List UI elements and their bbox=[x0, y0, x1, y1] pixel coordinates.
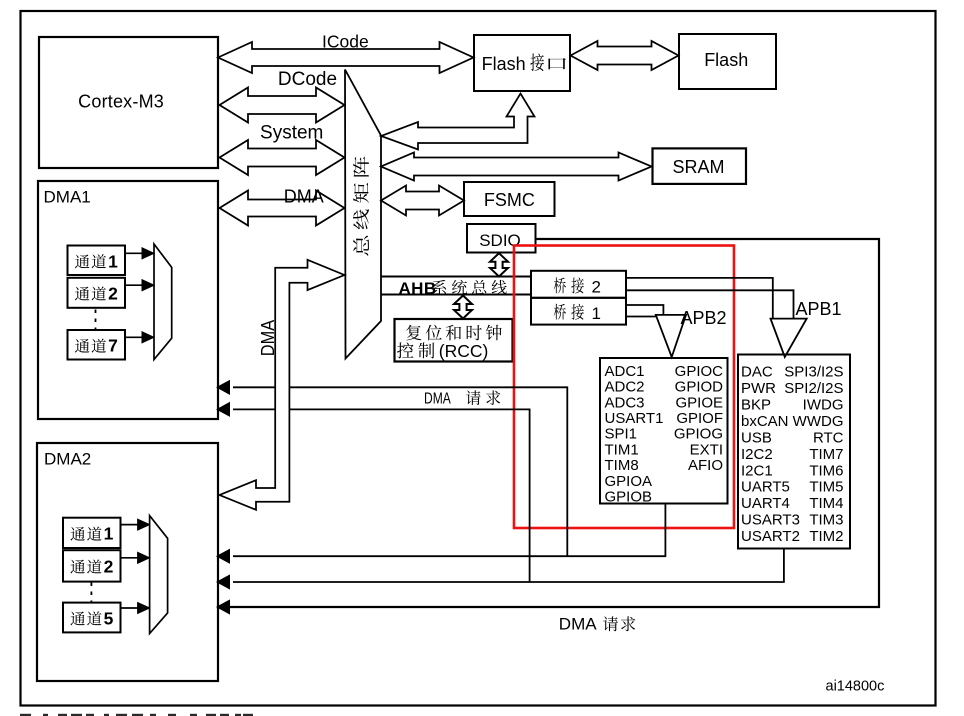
arrow SDIO to AHB bus bbox=[490, 253, 508, 276]
label DMA (rotated) bbox=[257, 319, 278, 356]
label DMA 请求 lower bbox=[559, 615, 635, 634]
arrow System: Cortex-M3 to bus matrix bbox=[220, 123, 345, 175]
svg-text:GPIOD: GPIOD bbox=[675, 379, 724, 396]
svg-text:GPIOE: GPIOE bbox=[675, 394, 723, 411]
svg-text:RTC: RTC bbox=[813, 429, 844, 446]
svg-text:2: 2 bbox=[108, 284, 118, 304]
block DMA2 bbox=[37, 443, 218, 681]
svg-text:TIM4: TIM4 bbox=[809, 495, 843, 512]
block 桥接2 (bridge 2) bbox=[531, 271, 626, 298]
svg-text:TIM2: TIM2 bbox=[809, 528, 843, 545]
wire DMA request APB1-bottom to DMA2 (with branch) bbox=[233, 549, 784, 583]
block Flash memory bbox=[679, 34, 776, 89]
label DMA 请求 upper bbox=[424, 390, 500, 407]
svg-text:UART5: UART5 bbox=[741, 479, 790, 496]
svg-text:SPI2/I2S: SPI2/I2S bbox=[784, 380, 843, 397]
wire bridge1 to APB2 arrow bbox=[627, 305, 663, 315]
block Cortex-M3 bbox=[39, 37, 218, 168]
wire 通道1 to mux bbox=[124, 252, 143, 254]
svg-text:TIM8: TIM8 bbox=[605, 457, 639, 474]
svg-text:bxCAN: bxCAN bbox=[741, 413, 789, 430]
svg-text:SRAM: SRAM bbox=[672, 157, 724, 177]
svg-text:DMA2: DMA2 bbox=[44, 450, 91, 469]
svg-text:GPIOC: GPIOC bbox=[675, 363, 724, 380]
svg-text:TIM7: TIM7 bbox=[809, 446, 843, 463]
svg-text:GPIOF: GPIOF bbox=[676, 410, 723, 427]
svg-text:PWR: PWR bbox=[741, 380, 776, 397]
svg-text:TIM5: TIM5 bbox=[809, 479, 843, 496]
caption sliver (cut off at bottom) bbox=[20, 714, 253, 716]
bus matrix 总线矩阵 bbox=[345, 70, 381, 359]
svg-text:USART1: USART1 bbox=[605, 410, 664, 427]
arrow DMA path: bus matrix to DMA2 (bent hollow) bbox=[220, 260, 345, 510]
arrow bus matrix to SRAM bbox=[381, 153, 652, 181]
wire SDIO DMA request loop bbox=[230, 239, 879, 607]
red highlight box bbox=[514, 246, 734, 529]
arrow DCode: Cortex-M3 to bus matrix bbox=[220, 69, 345, 123]
svg-text:Flash: Flash bbox=[482, 54, 526, 74]
svg-text:USB: USB bbox=[741, 429, 772, 446]
block DMA2 通道2 bbox=[63, 550, 121, 581]
svg-text:AHB: AHB bbox=[399, 279, 437, 298]
wire dashed ellipsis DMA2 channels bbox=[90, 583, 92, 603]
svg-text:I2C1: I2C1 bbox=[741, 462, 773, 479]
svg-text:UART4: UART4 bbox=[741, 495, 790, 512]
block APB1 peripherals bbox=[738, 355, 850, 549]
block DMA2 通道1 bbox=[63, 518, 121, 548]
svg-text:GPIOA: GPIOA bbox=[605, 473, 653, 490]
arrowhead APB1 (hollow V) bbox=[771, 319, 807, 357]
svg-text:AFIO: AFIO bbox=[688, 457, 723, 474]
block DMA1 bbox=[38, 181, 218, 419]
svg-text:APB2: APB2 bbox=[681, 308, 727, 328]
svg-text:Flash: Flash bbox=[704, 50, 748, 70]
junction arrowhead into DMA2 (request 3) bbox=[217, 600, 230, 614]
svg-text:5: 5 bbox=[104, 608, 114, 628]
wire 通道2 to mux bbox=[124, 284, 143, 286]
svg-text:(RCC): (RCC) bbox=[439, 341, 489, 361]
wire bridge2 to APB1 arrow bbox=[627, 278, 773, 319]
svg-text:I2C2: I2C2 bbox=[741, 446, 773, 463]
svg-text:SPI3/I2S: SPI3/I2S bbox=[784, 364, 843, 381]
svg-text:APB1: APB1 bbox=[796, 299, 842, 319]
svg-text:WWDG: WWDG bbox=[793, 413, 844, 430]
svg-text:Cortex-M3: Cortex-M3 bbox=[78, 92, 164, 112]
arrowhead APB2 (hollow V) bbox=[656, 315, 686, 357]
svg-text:DMA: DMA bbox=[424, 390, 451, 407]
svg-text:DMA: DMA bbox=[559, 615, 597, 634]
wire DMA2 通道5 to mux bbox=[120, 607, 138, 609]
svg-text:SPI1: SPI1 bbox=[605, 426, 638, 443]
svg-text:ADC3: ADC3 bbox=[605, 394, 645, 411]
svg-text:TIM1: TIM1 bbox=[605, 441, 639, 458]
svg-text:GPIOB: GPIOB bbox=[605, 489, 653, 506]
wire 通道7 to mux bbox=[124, 336, 143, 338]
block 复位和时钟控制 (RCC) bbox=[395, 319, 513, 362]
svg-text:7: 7 bbox=[108, 336, 118, 356]
svg-text:USART3: USART3 bbox=[741, 512, 800, 529]
svg-text:System: System bbox=[260, 123, 323, 144]
arrow Flash interface to Flash bbox=[571, 41, 679, 70]
arrow bus matrix to Flash interface (bent) bbox=[381, 94, 535, 150]
svg-text:2: 2 bbox=[104, 557, 114, 577]
block SDIO bbox=[467, 224, 536, 253]
svg-text:IWDG: IWDG bbox=[803, 397, 844, 414]
mux funnel DMA1 bbox=[154, 244, 172, 360]
mux funnel DMA2 bbox=[150, 516, 168, 634]
block DMA1 通道7 bbox=[68, 330, 126, 360]
svg-text:GPIOG: GPIOG bbox=[674, 426, 723, 443]
arrow ICode: Cortex-M3 to Flash interface bbox=[218, 32, 474, 73]
wire dashed ellipsis DMA1 channels bbox=[95, 310, 97, 331]
svg-text:TIM6: TIM6 bbox=[809, 462, 843, 479]
wire branch up to DMA1 request line A bbox=[233, 387, 567, 556]
svg-text:1: 1 bbox=[104, 524, 114, 544]
svg-text:DCode: DCode bbox=[278, 69, 337, 90]
block DMA1 通道2 bbox=[68, 278, 126, 308]
wire DMA request APB2-bottom to DMA2 (with branch) bbox=[233, 504, 665, 557]
block Flash 接口 (flash interface) bbox=[474, 35, 570, 91]
block SRAM bbox=[653, 148, 747, 184]
block 桥接1 (bridge 1) bbox=[531, 298, 626, 325]
wire branch up to DMA1 request line B bbox=[233, 409, 530, 582]
wire DMA2 通道2 to mux bbox=[120, 557, 138, 559]
svg-text:DAC: DAC bbox=[741, 364, 773, 381]
svg-text:DMA1: DMA1 bbox=[44, 188, 91, 207]
svg-text:1: 1 bbox=[592, 304, 601, 323]
wire DMA2 通道1 to mux bbox=[120, 524, 138, 526]
svg-text:ai14800c: ai14800c bbox=[826, 679, 885, 695]
svg-text:ADC2: ADC2 bbox=[605, 379, 645, 396]
svg-text:BKP: BKP bbox=[741, 397, 771, 414]
svg-text:USART2: USART2 bbox=[741, 528, 800, 545]
block FSMC bbox=[464, 182, 555, 216]
arrow bus matrix to FSMC bbox=[381, 186, 464, 216]
svg-text:ADC1: ADC1 bbox=[605, 363, 645, 380]
svg-text:TIM3: TIM3 bbox=[809, 512, 843, 529]
svg-text:FSMC: FSMC bbox=[484, 190, 535, 210]
svg-text:ICode: ICode bbox=[322, 32, 369, 52]
arrow AHB bus to RCC bbox=[454, 296, 472, 319]
svg-text:2: 2 bbox=[592, 278, 601, 297]
arrow DMA: DMA1 to bus matrix bbox=[220, 187, 345, 226]
block APB2 peripherals bbox=[600, 358, 728, 506]
block DMA2 通道5 bbox=[63, 603, 121, 633]
bus AHB 系统总线 band bbox=[381, 277, 532, 299]
svg-text:DMA: DMA bbox=[257, 319, 278, 356]
svg-text:EXTI: EXTI bbox=[690, 441, 723, 458]
block DMA1 通道1 bbox=[68, 246, 126, 276]
svg-text:DMA: DMA bbox=[284, 187, 324, 207]
svg-text:1: 1 bbox=[108, 251, 118, 271]
